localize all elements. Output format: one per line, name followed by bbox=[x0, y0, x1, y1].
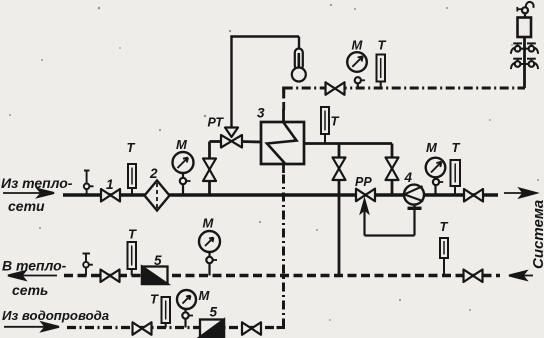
svg-text:Из тепло-: Из тепло- bbox=[1, 175, 73, 191]
svg-text:М: М bbox=[176, 137, 188, 152]
svg-text:Т: Т bbox=[127, 140, 136, 155]
svg-text:сеть: сеть bbox=[12, 282, 48, 298]
svg-text:5: 5 bbox=[210, 305, 218, 320]
svg-text:2: 2 bbox=[149, 166, 158, 181]
svg-text:5: 5 bbox=[154, 253, 162, 268]
svg-text:Из водопровода: Из водопровода bbox=[2, 308, 109, 323]
svg-text:М: М bbox=[199, 288, 211, 303]
svg-text:Т: Т bbox=[440, 219, 449, 234]
svg-text:М: М bbox=[352, 38, 364, 53]
svg-text:Т: Т bbox=[378, 38, 387, 53]
svg-text:Т: Т bbox=[452, 140, 461, 155]
svg-text:3: 3 bbox=[257, 106, 265, 121]
svg-text:Т: Т bbox=[331, 114, 340, 129]
svg-text:Т: Т bbox=[128, 227, 137, 242]
svg-text:Система: Система bbox=[530, 200, 544, 269]
svg-text:М: М bbox=[426, 140, 438, 155]
svg-text:1: 1 bbox=[106, 177, 114, 192]
svg-text:РР: РР bbox=[355, 175, 372, 189]
svg-text:В тепло-: В тепло- bbox=[2, 258, 67, 274]
svg-text:Т: Т bbox=[150, 292, 159, 307]
svg-text:сети: сети bbox=[8, 198, 45, 214]
svg-text:М: М bbox=[203, 216, 215, 231]
svg-text:4: 4 bbox=[404, 170, 413, 185]
svg-text:РТ: РТ bbox=[208, 116, 225, 130]
